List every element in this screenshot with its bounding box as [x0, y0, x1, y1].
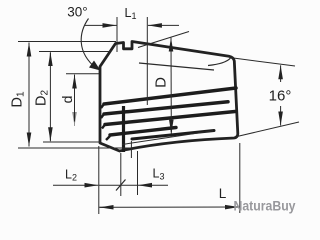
ext vertical left face [98, 146, 100, 214]
dim D1 extension top [18, 41, 116, 43]
slit hook 3 [102, 125, 105, 129]
slit band 1 [104, 88, 236, 104]
L3 dim line [138, 184, 168, 186]
ext vertical nose [239, 143, 241, 213]
ext vertical cone start [137, 151, 139, 195]
dim d line [74, 76, 76, 122]
slit hook 2 [101, 114, 104, 118]
dim D2 line [49, 53, 51, 140]
collet body outline [100, 42, 238, 152]
dim D1 line [28, 43, 30, 146]
ext vertical groove [120, 153, 122, 196]
16deg top extension [232, 58, 296, 66]
d up arrow [74, 75, 76, 85]
dim D line [170, 38, 172, 132]
dim D2 extension top [39, 51, 110, 53]
svg-text:L: L [219, 186, 227, 201]
dim D1 extension bottom [18, 147, 130, 149]
D2 down arrow [49, 130, 51, 141]
slit band 4 [110, 128, 176, 136]
L1 dim right arrow [148, 24, 179, 26]
16deg down arrow [280, 106, 282, 126]
D2 up arrow [49, 52, 51, 64]
ext vertical small [130, 141, 132, 158]
slit band 3 [105, 112, 235, 125]
L left arrow [100, 206, 111, 208]
svg-text:NaturaBuy: NaturaBuy [234, 198, 296, 214]
dim d extension top [66, 73, 99, 75]
dim D2 extension bottom [43, 141, 100, 143]
16deg up arrow [280, 65, 282, 82]
slit left connector [122, 106, 125, 152]
30deg arrowhead [89, 61, 101, 71]
svg-text:D: D [153, 77, 170, 88]
diagonal reference line [138, 32, 189, 48]
svg-text:d: d [59, 96, 75, 104]
L1 dim left arrow [85, 24, 117, 26]
L1 extension right [146, 17, 148, 105]
slit band 2 [104, 102, 228, 114]
L2L3 middle line [99, 184, 138, 186]
d down arrow faint [74, 121, 76, 126]
D1 down arrow [28, 135, 30, 147]
thin diagonal under body [122, 131, 213, 145]
slit hook 1 [101, 104, 104, 108]
slash tick [116, 180, 126, 191]
slit hook 4 [106, 136, 110, 140]
svg-text:30°: 30° [67, 5, 87, 20]
L right arrow [228, 206, 239, 208]
nose fillet [208, 58, 231, 66]
D down arrow [170, 122, 172, 134]
16deg bottom extension [237, 122, 299, 137]
30deg leader arc [81, 19, 96, 69]
D1 up arrow [28, 43, 30, 55]
inner bore line [139, 63, 214, 70]
svg-text:16°: 16° [269, 88, 292, 105]
slit band 5 [132, 131, 214, 140]
L dim line [99, 206, 239, 208]
D up arrow [170, 38, 172, 49]
L2 dim line [53, 184, 98, 186]
L1 extension left [116, 17, 118, 52]
